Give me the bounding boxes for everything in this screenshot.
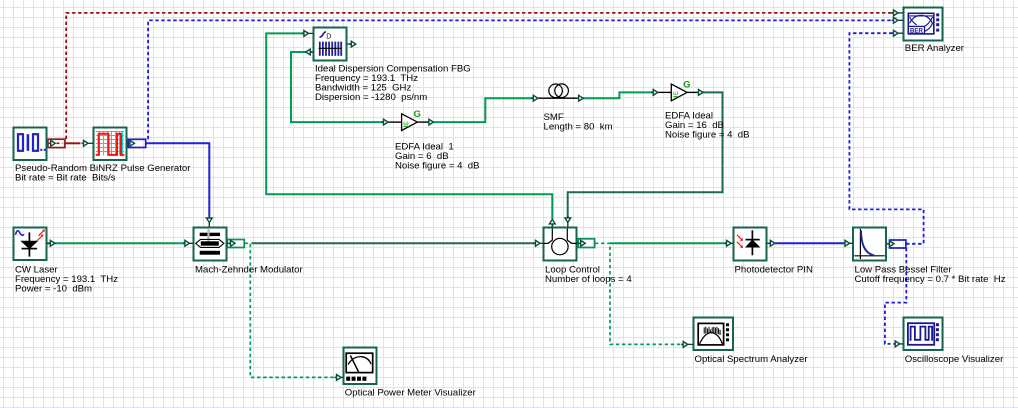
svg-text:G: G [683, 79, 690, 89]
wire EDFA1 output to SMF input [434, 98, 533, 122]
port rect blue LPBF output [890, 240, 906, 248]
port FBG right out [347, 41, 356, 47]
wire dashed blue NRZ output to BER Analyzer input 2 [148, 20, 893, 139]
port rect green MZM output [227, 240, 244, 248]
wire NRZ generator to MZM top electrical [146, 143, 209, 217]
wire CW Laser to MZM [47, 242, 185, 244]
port MZM out [227, 240, 236, 246]
svg-text:ω: ω [403, 120, 409, 127]
port CW out [47, 240, 55, 246]
wire dashed blue LPBF output to BER Analyzer input 3 [849, 33, 923, 244]
wire MZM output to Loop Control input (dark) [252, 242, 536, 244]
svg-text:Length = 80 km: Length = 80 km [544, 122, 613, 133]
port FBG reflected out (left) [306, 49, 314, 55]
port BER in 3 [892, 30, 904, 36]
icon FBG grating [319, 32, 342, 56]
label Power Meter [345, 388, 477, 399]
icon NRZ waveform [96, 131, 125, 156]
component EDFA2 [658, 79, 698, 101]
svg-text:Bit rate = Bit rate Bits/s: Bit rate = Bit rate Bits/s [15, 172, 116, 183]
label LPBF [855, 264, 1006, 285]
label EDFA1 [395, 142, 480, 172]
label OSA [695, 354, 809, 365]
label Oscilloscope [905, 354, 1004, 365]
port EDFA2 in [651, 90, 658, 96]
svg-text:Power = -10 dBm: Power = -10 dBm [15, 283, 92, 294]
port FBG in [302, 31, 314, 37]
svg-text:Oscilloscope Visualizer: Oscilloscope Visualizer [905, 354, 1004, 365]
port LPBF in [843, 240, 853, 246]
svg-text:ω: ω [673, 90, 679, 97]
icon BER analyzer eye diagram [908, 13, 939, 34]
wire PRBS to NRZ electrical (dark red) [57, 142, 81, 144]
label SMF [544, 112, 613, 133]
port power meter in [335, 375, 344, 381]
port SMF out [577, 95, 584, 101]
svg-text:Dispersion = -1280 ps/nm: Dispersion = -1280 ps/nm [315, 92, 427, 103]
component box Optical Spectrum Analyzer [694, 318, 734, 351]
port MZM in top [206, 216, 212, 228]
svg-text:Cutoff frequency = 0.7 * Bit r: Cutoff frequency = 0.7 * Bit rate Hz [855, 274, 1006, 285]
component box Loop Control [544, 228, 577, 261]
svg-text:Noise figure = 4 dB: Noise figure = 4 dB [395, 161, 480, 172]
svg-text:Noise figure = 4 dB: Noise figure = 4 dB [665, 129, 750, 140]
port EDFA2 out [697, 90, 704, 96]
component box Mach-Zehnder Modulator [194, 228, 227, 261]
label EDFA2 [665, 110, 750, 140]
port PD out [767, 240, 775, 246]
svg-text:Number of loops = 4: Number of loops = 4 [545, 274, 632, 285]
label Loop Control [545, 264, 632, 285]
port Loop top out (up arrow) [549, 219, 555, 227]
component box NRZ pulse generator [94, 128, 127, 161]
svg-text:G: G [414, 109, 421, 119]
port SMF in [531, 95, 538, 101]
icon low pass filter [854, 229, 885, 259]
wire Photodetector to Low Pass Bessel Filter [775, 242, 844, 244]
port NRZ out [127, 140, 135, 146]
port Loop out right [577, 240, 586, 246]
port rect blue NRZ output [128, 139, 145, 147]
component box BER Analyzer [904, 8, 943, 41]
icon PRBS 010.. [18, 134, 46, 151]
component box PRBS generator [14, 128, 47, 161]
wire Loop Control output to Photodetector [610, 242, 726, 244]
port EDFA1 out [427, 119, 434, 125]
component box Low Pass Bessel Filter [853, 228, 886, 261]
port rect green Loop Control output [578, 239, 594, 248]
icon CW laser diode [16, 229, 45, 256]
port Loop in left [534, 240, 544, 246]
svg-text:BER Analyzer: BER Analyzer [905, 43, 965, 54]
port PRBS out [49, 140, 56, 146]
icon photodiode [737, 230, 760, 255]
label Photodetector [735, 264, 813, 275]
wire SMF output to EDFA2 input [583, 92, 653, 98]
svg-text:BER: BER [910, 27, 923, 34]
icon MZM [196, 229, 224, 255]
wire Loop Control output to FBG input (feedback up-left) [266, 33, 552, 219]
label PRBS generator [15, 163, 191, 184]
component box Optical Power Meter Visualizer [344, 348, 377, 385]
component box FBG [314, 28, 347, 61]
port BER in 1 [892, 10, 904, 16]
port NRZ in [82, 140, 94, 146]
svg-text:Optical Spectrum Analyzer: Optical Spectrum Analyzer [695, 354, 809, 365]
port OSA in [681, 342, 693, 348]
component box CW Laser [14, 228, 47, 261]
label FBG [315, 64, 471, 104]
port rect maroon PRBS output [48, 139, 65, 147]
wire dashed green Loop Control output to OSA [595, 243, 681, 344]
port MZM in left [183, 240, 194, 246]
wire EDFA2 output to Loop Control top input (dark) [568, 92, 723, 217]
icon OSA spectrum [698, 323, 729, 345]
port LPBF out [886, 241, 894, 247]
svg-text:Optical Power Meter Visualizer: Optical Power Meter Visualizer [345, 388, 477, 399]
wire dashed blue LPBF output to Oscilloscope [885, 248, 906, 344]
wire dashed red PRBS output to BER Analyzer input 1 [66, 13, 893, 139]
label BER Analyzer [905, 43, 965, 54]
port BER in 2 [892, 17, 904, 23]
port EDFA1 in [382, 119, 389, 125]
component box Photodetector PIN [734, 228, 767, 261]
svg-text:D: D [326, 34, 331, 41]
component SMF fiber [538, 84, 579, 98]
icon analog power meter [346, 353, 373, 381]
label MZM [195, 264, 304, 275]
component box Oscilloscope Visualizer [904, 318, 943, 351]
wire dashed green MZM output to Optical Power Meter [245, 243, 334, 377]
svg-text:Mach-Zehnder Modulator: Mach-Zehnder Modulator [195, 264, 304, 275]
port scope in [893, 341, 903, 347]
port Loop top in (down arrow) [565, 216, 571, 228]
icon oscilloscope square wave [908, 323, 939, 345]
label CW Laser [15, 264, 118, 294]
wire FBG lower output to EDFA1 input [291, 52, 383, 122]
port PD in [725, 240, 734, 246]
svg-text:Photodetector PIN: Photodetector PIN [735, 264, 813, 275]
icon loop control [544, 229, 577, 255]
component EDFA1 [388, 109, 428, 131]
